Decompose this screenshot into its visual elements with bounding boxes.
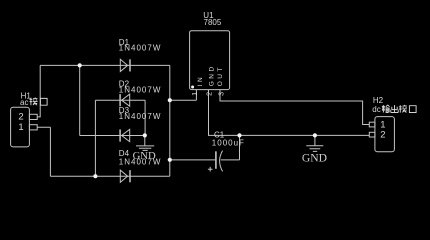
svg-text:GND: GND — [208, 64, 215, 86]
svg-text:H2: H2 — [373, 96, 384, 105]
svg-text:7805: 7805 — [204, 18, 222, 27]
svg-text:1000uF: 1000uF — [212, 138, 245, 147]
svg-text:GND: GND — [133, 150, 156, 162]
svg-text:1: 1 — [190, 92, 199, 96]
svg-text:IN: IN — [197, 75, 204, 87]
svg-text:3: 3 — [216, 92, 225, 96]
svg-text:1N4007W: 1N4007W — [119, 44, 162, 53]
svg-text:GND: GND — [302, 152, 327, 165]
svg-text:dc: dc — [372, 105, 380, 114]
svg-text:2: 2 — [205, 92, 214, 96]
svg-text:2: 2 — [380, 130, 385, 141]
svg-text:OUT: OUT — [217, 65, 224, 86]
svg-text:1: 1 — [18, 122, 23, 133]
svg-text:2: 2 — [18, 112, 23, 123]
svg-text:1N4007W: 1N4007W — [119, 85, 162, 94]
svg-text:ac: ac — [20, 98, 28, 107]
svg-text:1N4007W: 1N4007W — [119, 112, 162, 121]
